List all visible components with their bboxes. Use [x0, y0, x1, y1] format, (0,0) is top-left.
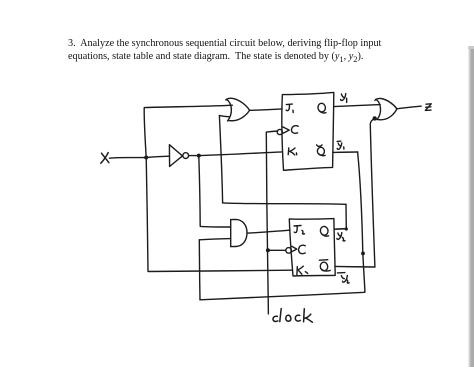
label Q (FF2) — [320, 226, 329, 236]
label J2 — [294, 226, 305, 235]
wire y1bar bottom horizontal (line2) — [200, 292, 365, 300]
wire OR2 output — [397, 106, 421, 109]
label Q (FF1) — [317, 103, 326, 113]
wire y2 feedback vertical to OR1 — [219, 116, 222, 203]
label y1 — [341, 94, 347, 103]
clock bubble FF1 — [277, 129, 282, 134]
label J1 — [286, 104, 293, 113]
flip-flop FF1 box — [282, 92, 334, 170]
wire y1bar feedback down — [358, 152, 365, 292]
wire AND output to J2 — [247, 230, 290, 233]
wire y2 feedback horizontal — [223, 203, 346, 204]
wire FF1 Qbar output — [333, 151, 358, 153]
wire X' down to AND top input — [199, 156, 231, 227]
wire clock branch to FF2 — [268, 249, 285, 251]
wire y2bar riser to OR2 — [370, 119, 375, 267]
label C (FF1) — [291, 126, 298, 134]
wire y2 feedback right vertical — [345, 204, 347, 228]
flip-flop FF2 box — [289, 219, 335, 276]
wire AND bottom input — [199, 239, 230, 240]
clock triangle FF1 — [283, 127, 289, 133]
label y1bar — [337, 141, 344, 149]
label y2bar — [337, 273, 349, 283]
or-gate OR1 — [226, 98, 250, 121]
wire y1bar riser to AND — [198, 240, 201, 300]
inverter (NOT gate) — [169, 145, 182, 167]
wire OR1 lower input jog — [219, 116, 229, 117]
label Z — [425, 104, 431, 111]
node X' junction — [197, 154, 201, 158]
label y2 — [337, 233, 345, 241]
wire OR1 to J1 — [250, 109, 282, 110]
wire K1 input — [199, 152, 282, 156]
wire clock main riser — [266, 131, 278, 314]
node y1bar joint — [361, 252, 365, 256]
label Qbar (FF2) — [319, 260, 330, 272]
wire FF2 Q output (y2) — [334, 228, 346, 230]
or-gate OR2 (output Z) — [375, 98, 397, 119]
wire FF2 Qbar output (y2bar) — [335, 265, 375, 268]
wire X feedback down to K2 — [146, 158, 292, 272]
label X — [101, 153, 109, 164]
clock triangle FF2 — [292, 246, 297, 251]
label K2 — [297, 266, 308, 275]
wire y2 output — [335, 228, 347, 231]
and-gate AND1 — [231, 219, 247, 246]
wire X input — [110, 157, 147, 160]
label clock — [273, 309, 312, 323]
label Qbar (FF1) — [317, 145, 326, 156]
wire inverter to node — [189, 155, 199, 157]
wire X feedback up to OR1 — [144, 105, 232, 157]
node clock junction — [266, 248, 270, 252]
label K1 — [288, 148, 297, 155]
node y2 corner blob — [345, 227, 348, 230]
clock bubble FF2 — [286, 248, 292, 254]
wire X to inverter — [146, 156, 169, 157]
node X junction — [144, 156, 148, 160]
label C (FF2) — [299, 245, 306, 253]
wire FF1 Q output (y1) — [334, 105, 381, 107]
node OR2 input blob — [373, 116, 377, 120]
